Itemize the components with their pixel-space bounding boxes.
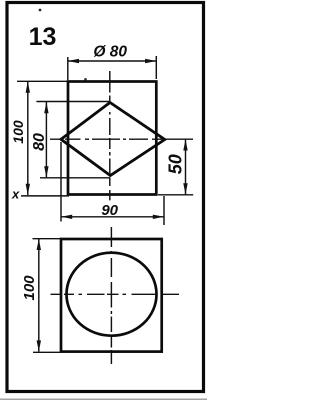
svg-text:90: 90: [101, 202, 118, 219]
svg-text:Ø 80: Ø 80: [93, 44, 127, 61]
dimension 100 top view: extension lines: [33, 238, 61, 240]
faint page split line: [0, 398, 207, 400]
svg-text:80: 80: [31, 133, 48, 151]
svg-text:100: 100: [10, 120, 26, 144]
dimension 100 top view: line and arrows: [38, 239, 40, 352]
speck on top edge: [84, 78, 87, 81]
dimension 90: extension lines: [60, 142, 62, 222]
horizontal centerline front: [50, 138, 165, 140]
border frame: [7, 3, 204, 392]
dimension 100 front: line and arrows: [27, 82, 29, 196]
front rectangle outline: [68, 82, 156, 195]
dimension 50: extension lines: [166, 138, 193, 140]
svg-text:50: 50: [165, 154, 185, 174]
x-axis line: [21, 195, 69, 197]
vertical centerline top view: [110, 227, 112, 364]
horizontal centerline top view: [51, 293, 180, 295]
top view square: [61, 239, 162, 352]
dimension 90: line and arrows: [61, 216, 164, 218]
dimension O80: extension lines: [67, 57, 69, 80]
speck dot: [39, 9, 42, 12]
dimension 80 front: line and arrows: [45, 102, 47, 178]
dimension 50: line and arrows: [185, 139, 187, 194]
svg-text:100: 100: [21, 275, 38, 301]
svg-text:13: 13: [29, 23, 57, 51]
svg-text:x: x: [11, 187, 20, 202]
dimension 100 front: extension top: [17, 80, 67, 82]
diamond (rotated square): [61, 103, 165, 176]
dimension O80: line and arrows: [68, 60, 157, 62]
vertical centerline front: [109, 71, 111, 200]
circle: [67, 253, 157, 336]
dimension 80 front: extension lines: [36, 101, 110, 103]
